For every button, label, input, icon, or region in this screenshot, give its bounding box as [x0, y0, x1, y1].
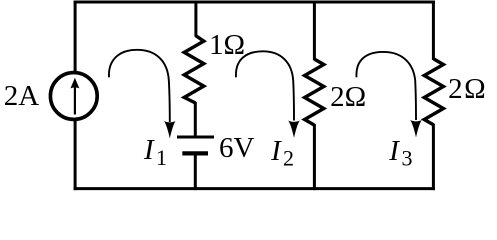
svg-text:I: I [388, 135, 400, 167]
wire branch3 bottom stub [313, 124, 316, 190]
current source arrow shaft [74, 88, 76, 115]
svg-text:2A: 2A [4, 80, 40, 112]
mesh arrow I1 arc [109, 50, 170, 122]
svg-text:1: 1 [156, 145, 167, 170]
current source arrowhead [70, 78, 79, 89]
mesh arrow I3 arc [356, 52, 416, 120]
wire left upper [74, 1, 77, 72]
wire branch2 top stub [194, 1, 197, 37]
svg-text:2: 2 [283, 146, 294, 171]
wire branch2 bottom stub [194, 155, 197, 191]
svg-text:2Ω: 2Ω [330, 81, 366, 113]
wire left lower [74, 121, 77, 190]
mesh arrow I2 arc [236, 51, 294, 120]
battery V1 6V long plate [177, 135, 214, 138]
wire top [74, 1, 435, 4]
mesh arrow I2 head [288, 121, 299, 139]
wire right lower [432, 124, 435, 190]
wire bottom [74, 187, 435, 190]
wire right upper [432, 1, 435, 61]
svg-text:3: 3 [402, 146, 413, 171]
wire branch3 top stub [313, 1, 316, 61]
wire branch2 middle stub [194, 102, 197, 136]
current source I=2A circle [50, 73, 97, 120]
svg-text:I: I [270, 135, 282, 167]
svg-text:6V: 6V [219, 132, 255, 164]
mesh arrow I3 head [410, 120, 421, 138]
mesh arrow I1 head [164, 121, 175, 139]
svg-text:2Ω: 2Ω [448, 73, 487, 105]
svg-text:1Ω: 1Ω [209, 29, 245, 61]
svg-text:I: I [143, 134, 155, 166]
battery V1 6V short plate [182, 151, 208, 155]
resistor R2 2ohm zigzag [305, 59, 324, 125]
resistor R1 1ohm zigzag [184, 36, 204, 104]
resistor R3 2ohm zigzag [424, 59, 443, 125]
